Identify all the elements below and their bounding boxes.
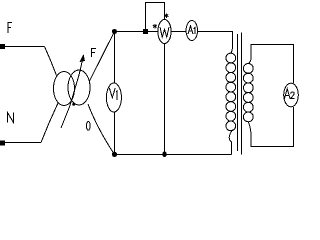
ammeter A2 xyxy=(284,83,299,107)
wire top rail xyxy=(115,31,158,33)
variac terminal label F xyxy=(92,48,97,57)
node C wattmeter tap xyxy=(143,29,148,34)
wire bottom rail xyxy=(115,154,232,156)
transformer T2 core xyxy=(238,33,242,155)
wire F diagonal to variac xyxy=(45,47,57,76)
variac terminal label 0 xyxy=(86,121,90,130)
variac wiper arrow xyxy=(61,54,85,128)
transformer T2 secondary winding xyxy=(243,64,253,122)
wire F horizontal xyxy=(2,46,45,48)
node D wattmeter bottom junction xyxy=(162,151,166,157)
node A xyxy=(112,29,117,34)
terminal F label xyxy=(8,22,12,33)
wattmeter W xyxy=(158,20,171,44)
ammeter A1 xyxy=(186,21,197,41)
terminal N label xyxy=(8,113,14,123)
wire N horizontal xyxy=(2,142,41,144)
transformer T2 primary winding xyxy=(226,53,236,131)
wire W bottom lead xyxy=(164,44,166,155)
polarity mark top xyxy=(165,13,169,18)
variac T1 winding right xyxy=(68,70,90,105)
wire A1 to transformer primary xyxy=(198,32,233,54)
wire variac top to node A xyxy=(90,32,115,82)
terminal F node xyxy=(0,44,5,49)
wire primary bottom lead xyxy=(229,130,233,155)
wire N diagonal to variac xyxy=(41,103,58,143)
wire wattmeter voltage loop xyxy=(146,3,165,32)
wire secondary bottom lead to A2 loop xyxy=(248,107,293,147)
wire W to A1 xyxy=(171,31,186,33)
voltmeter V1 xyxy=(106,83,121,112)
variac crossing junction xyxy=(72,103,75,106)
wire secondary top lead to A2 loop xyxy=(248,45,293,84)
wire variac bottom to node B xyxy=(88,104,115,155)
node B xyxy=(112,152,117,157)
variac T1 winding left xyxy=(54,72,75,106)
wire V1 branch bottom xyxy=(114,112,116,155)
terminal N node xyxy=(0,141,5,146)
wire V1 branch top xyxy=(114,32,116,84)
polarity mark left xyxy=(153,24,157,29)
